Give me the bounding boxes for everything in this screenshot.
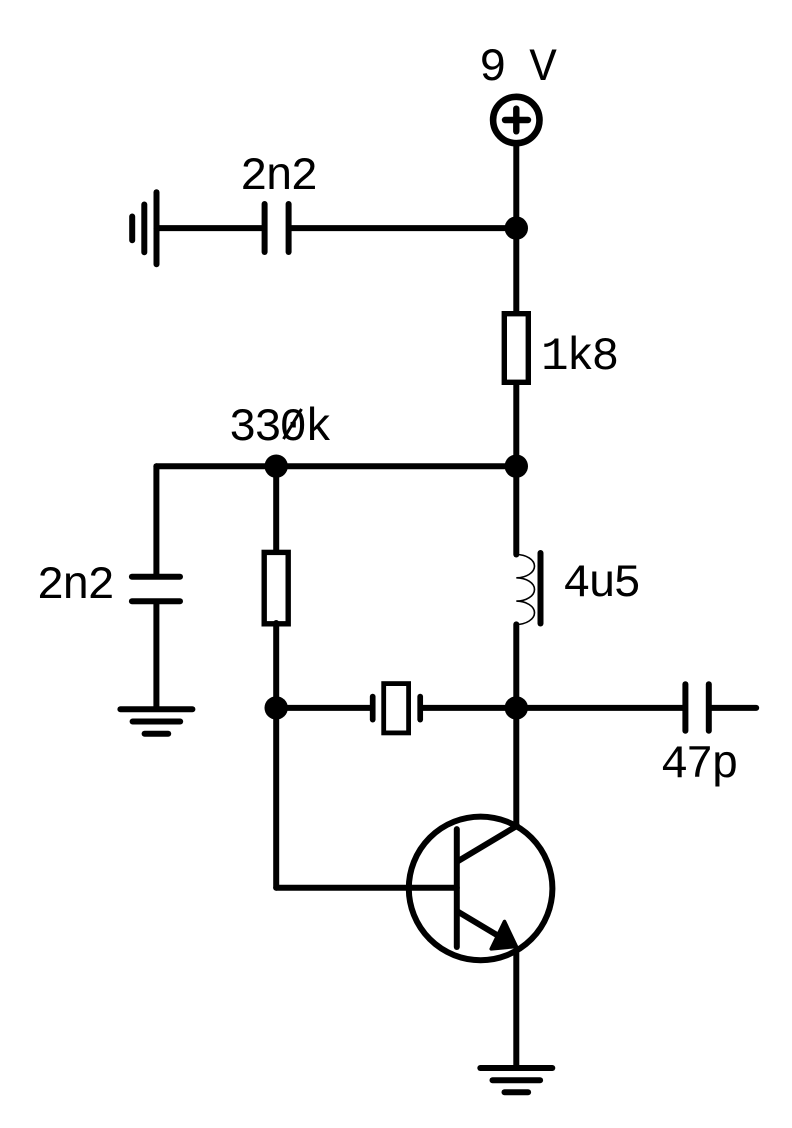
- wire node D down left branch: [273, 708, 279, 888]
- transistor Q1: [409, 817, 553, 961]
- wire node row B horizontal: [156, 463, 516, 469]
- wire crystal X1 to node E: [423, 705, 517, 711]
- svg-text:2n2: 2n2: [37, 560, 113, 612]
- capacitor C2 2n2 (left): [132, 577, 180, 601]
- capacitor C1 2n2 (top): [265, 204, 289, 252]
- wire capacitor C1 to node VCC: [291, 225, 516, 231]
- svg-text:9: 9: [479, 42, 504, 94]
- svg-text:4u5: 4u5: [563, 558, 639, 610]
- svg-text:47p: 47p: [661, 739, 737, 791]
- wire base of transistor Q1: [276, 885, 457, 891]
- crystal X1: [373, 684, 421, 733]
- svg-text:V: V: [529, 42, 557, 94]
- transistor Q1 emitter arrow: [491, 921, 516, 949]
- resistor R1 1k8: [504, 314, 528, 383]
- svg-text:2n2: 2n2: [240, 151, 316, 203]
- ground G3: [480, 1068, 552, 1092]
- wire resistor R1 to node B: [513, 383, 519, 466]
- wire node row B down to capacitor C2: [153, 466, 159, 574]
- wire node E to capacitor C3: [516, 705, 683, 711]
- node D junction: [265, 696, 288, 719]
- wire emitter of Q1 to ground G3: [513, 950, 519, 1068]
- wire capacitor C3 open terminal: [712, 705, 757, 711]
- ground G2: [120, 709, 192, 733]
- wire supply to node VCC: [513, 147, 519, 229]
- inductor L1 4u5 coil: [516, 554, 534, 624]
- node VCC junction: [505, 216, 528, 239]
- ground G1 (rotated left): [132, 192, 156, 264]
- capacitor C3 47p: [685, 684, 708, 731]
- resistor R2 330k: [264, 552, 288, 623]
- wire inductor L1 to node E: [513, 624, 519, 708]
- wire capacitor C2 to ground G2: [153, 604, 159, 709]
- label 9 V: [479, 42, 557, 94]
- wire resistor R2 to node D: [273, 623, 279, 708]
- svg-text:1k8: 1k8: [541, 331, 617, 383]
- wire node VCC to resistor R1: [513, 228, 519, 313]
- label R2 value 330k: [229, 402, 331, 454]
- inductor L1 core bar: [538, 553, 544, 624]
- node B junction: [505, 455, 528, 478]
- wire node B to inductor L1: [513, 466, 519, 554]
- wire node E to collector of Q1: [513, 708, 519, 826]
- wire ground G1 to capacitor C1: [157, 225, 263, 231]
- slash of zero in 330k: [284, 409, 302, 439]
- node E junction: [505, 696, 528, 719]
- node C junction: [265, 455, 288, 478]
- wire node D to crystal X1: [276, 705, 370, 711]
- power supply V1 9V: [493, 97, 539, 143]
- wire node C to resistor R2: [273, 466, 279, 552]
- svg-text:330k: 330k: [229, 402, 331, 454]
